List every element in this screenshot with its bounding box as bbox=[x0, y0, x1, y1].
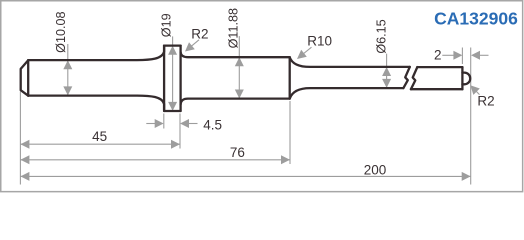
svg-text:R10: R10 bbox=[307, 33, 332, 48]
svg-text:Ø6.15: Ø6.15 bbox=[374, 19, 388, 53]
svg-text:2: 2 bbox=[434, 47, 442, 62]
svg-text:Ø10.08: Ø10.08 bbox=[54, 12, 68, 53]
svg-text:Ø11.88: Ø11.88 bbox=[227, 8, 241, 48]
svg-text:CA132906: CA132906 bbox=[434, 8, 518, 28]
svg-text:4.5: 4.5 bbox=[203, 118, 222, 133]
svg-text:45: 45 bbox=[92, 129, 107, 144]
svg-text:Ø19: Ø19 bbox=[159, 13, 173, 37]
svg-text:R2: R2 bbox=[477, 93, 494, 108]
svg-text:200: 200 bbox=[364, 163, 387, 178]
svg-text:R2: R2 bbox=[191, 26, 208, 41]
svg-text:76: 76 bbox=[230, 145, 245, 160]
